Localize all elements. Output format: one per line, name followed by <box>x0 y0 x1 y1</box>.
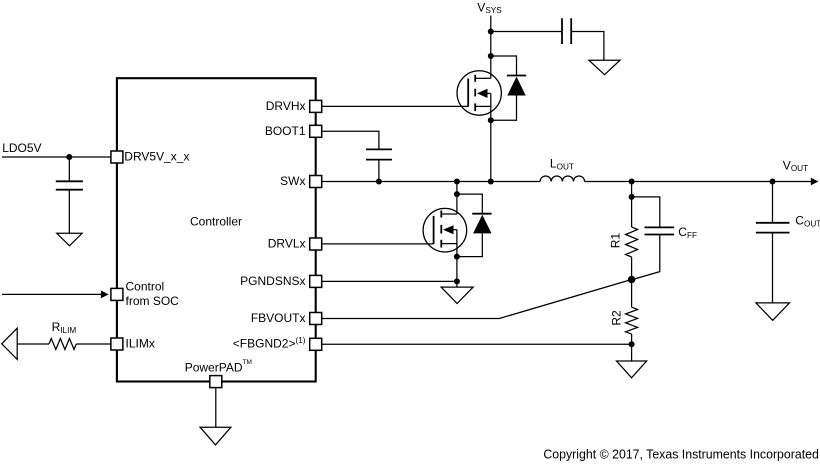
resistor RILIM <box>49 339 76 350</box>
ground G6 <box>756 303 790 320</box>
wire VSYS down to Q1 drain <box>490 16 492 79</box>
wire SWx line <box>322 181 540 183</box>
node Q2 source junction <box>454 254 460 260</box>
node VSYS-diode junction <box>488 53 494 59</box>
wire FBGND2 <box>322 343 631 345</box>
wire DRVLx to Q2 gate <box>322 243 433 245</box>
capacitor CFF <box>645 226 675 228</box>
node boot-SW junction <box>376 179 382 185</box>
diode D2 (Q2 body diode) <box>457 194 492 257</box>
wire SW down to Q2 drain <box>456 182 458 215</box>
wire resistor to pin <box>76 343 110 345</box>
node FB junction <box>628 276 636 284</box>
svg-text:R1: R1 <box>608 233 622 249</box>
svg-text:LDO5V: LDO5V <box>2 141 41 155</box>
svg-text:R2: R2 <box>609 310 623 326</box>
svg-text:from SOC: from SOC <box>126 294 180 308</box>
wire LOUT to VOUT <box>585 181 812 183</box>
wire COUT to ground <box>772 233 774 303</box>
wire cap stub <box>68 157 70 181</box>
wire Q2 source down <box>456 230 458 287</box>
ground G5 <box>617 361 647 378</box>
transistor Q2 (low-side MOSFET) <box>423 208 467 252</box>
svg-text:BOOT1: BOOT1 <box>265 124 306 138</box>
wire to resistor <box>17 343 49 345</box>
wire LDO5V to DRV5V_x_x <box>2 156 110 158</box>
pin DRVHx <box>310 100 322 112</box>
svg-text:DRVLx: DRVLx <box>268 236 306 250</box>
wire PowerPAD to ground <box>215 388 217 427</box>
wire cap to ground <box>68 190 70 234</box>
capacitor C-VSYS <box>561 18 563 44</box>
wire R1 to node <box>631 257 633 307</box>
pin FBVOUTx <box>310 313 322 325</box>
ground G4 <box>200 427 231 445</box>
inductor LOUT <box>540 176 584 182</box>
node SW-COUT junction <box>770 179 776 185</box>
wire R2 to ground node <box>631 334 633 361</box>
arrow VOUT <box>811 178 819 186</box>
ground G1 <box>57 233 82 246</box>
resistor R2 <box>626 307 638 334</box>
node FBGND junction <box>629 341 635 347</box>
node SW-Q2 junction <box>454 179 460 185</box>
svg-text:<FBGND2>(1): <FBGND2>(1) <box>233 336 306 351</box>
node Q2 drain-diode junction <box>454 191 460 197</box>
pin PGNDSNSx <box>310 275 322 287</box>
wire SW down to R1 <box>631 182 633 228</box>
pin SWx <box>310 176 322 188</box>
wire PGNDSNSx <box>322 280 457 282</box>
resistor R1 <box>626 227 638 257</box>
wire CFF bottom <box>632 235 660 280</box>
wire BOOT1 to cap <box>322 131 379 149</box>
svg-text:PowerPADTM: PowerPADTM <box>185 359 252 374</box>
node Q1 source junction <box>488 117 494 123</box>
pin PowerPAD <box>210 376 222 388</box>
diode D1 (Q1 body diode) <box>491 56 526 120</box>
svg-text:Control: Control <box>126 279 165 293</box>
pin FBGND2 <box>310 338 322 350</box>
input connector ILIM (open triangle) <box>2 328 18 359</box>
capacitor C-BOOT <box>366 148 392 150</box>
wire DRVHx to Q1 gate <box>322 105 468 107</box>
wire cap to ground <box>572 32 604 61</box>
svg-text:PGNDSNSx: PGNDSNSx <box>240 274 305 288</box>
node LDO5V junction <box>66 154 72 160</box>
capacitor COUT <box>756 222 790 224</box>
wire to VSYS cap <box>491 31 562 33</box>
svg-text:Controller: Controller <box>190 214 242 228</box>
svg-text:FBVOUTx: FBVOUTx <box>251 311 306 325</box>
pin DRVLx <box>310 238 322 250</box>
wire Control from SOC arrow <box>2 293 103 295</box>
pin ILIMx <box>111 338 123 350</box>
wire cap to SWx <box>378 160 380 182</box>
pin BOOT1 <box>310 125 322 137</box>
ground G2 <box>589 60 620 74</box>
wire VOUT down to COUT <box>772 182 774 223</box>
node SW-Q1 junction <box>488 179 494 185</box>
node PGND junction <box>454 278 460 284</box>
node VSYS-cap junction <box>488 29 494 35</box>
node R1-CFF top junction <box>629 194 635 200</box>
ground G3 <box>441 287 473 303</box>
svg-text:DRV5V_x_x: DRV5V_x_x <box>124 149 189 163</box>
pin Control from SOC <box>111 288 123 300</box>
wire CFF branch top <box>632 197 660 227</box>
pin DRV5V_x_x <box>111 151 123 163</box>
svg-text:Copyright © 2017, Texas Instru: Copyright © 2017, Texas Instruments Inco… <box>543 448 819 462</box>
controller U1 box <box>117 78 316 381</box>
wire FBVOUTx <box>322 280 631 319</box>
node SW-R1 junction <box>629 179 635 185</box>
svg-text:SWx: SWx <box>280 174 305 188</box>
svg-text:DRVHx: DRVHx <box>266 99 306 113</box>
svg-text:ILIMx: ILIMx <box>126 336 155 350</box>
capacitor C-LDO5V <box>56 180 83 182</box>
transistor Q1 (high-side MOSFET) <box>457 71 501 182</box>
